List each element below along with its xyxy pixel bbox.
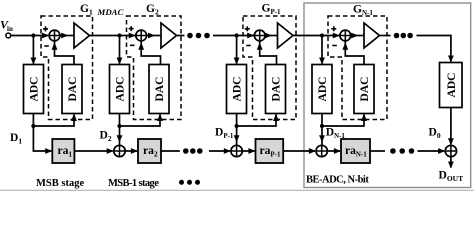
node junction DP-1	[235, 124, 239, 128]
svg-text:MSB stage: MSB stage	[36, 178, 84, 189]
DAC block stage 1	[62, 65, 82, 114]
summing node SB5	[445, 145, 456, 156]
svg-text:ADC: ADC	[232, 77, 244, 102]
ellipsis dots bottom caption row	[179, 180, 200, 185]
wire backend ADC down to summing node SB5	[448, 108, 454, 146]
wire A4 output stub	[380, 35, 391, 37]
ADC block stage 2	[110, 65, 130, 114]
wire ADC1 output down to node D1	[32, 114, 34, 127]
wire J3 down to ADC3	[234, 36, 240, 65]
wire DAC1 output feedback to S1 minus input	[52, 41, 74, 65]
wire ADC4 output down to node DN-1	[321, 114, 323, 127]
minus sign stage 1	[44, 45, 49, 47]
wire A1 output to junction J2 and S2	[90, 35, 136, 37]
wire SB3 to raP-1	[242, 148, 255, 154]
input terminal Vin	[0, 18, 13, 38]
svg-text:DAC: DAC	[154, 77, 166, 102]
wire D1 down to ra1	[33, 126, 52, 154]
wire DN-1 down to summing node SB4	[319, 126, 325, 145]
summing node S4	[340, 30, 351, 41]
summing node S3	[254, 30, 265, 41]
wire DAC3 output feedback to S3 minus input	[257, 41, 277, 65]
node junction J2	[117, 33, 121, 37]
dashed MDAC box stage 2	[127, 16, 182, 120]
plus sign stage 2	[129, 26, 134, 31]
dashed MDAC box stage 1	[41, 16, 93, 120]
svg-text:MSB-1 stage: MSB-1 stage	[108, 178, 159, 189]
wire S2 to amplifier A2	[147, 33, 161, 39]
label G1 MDAC	[80, 3, 124, 17]
wire J4 down to ADC4	[319, 36, 325, 65]
ADC block stage N-1	[312, 65, 332, 114]
block ra2	[138, 139, 161, 163]
block raP-1	[256, 139, 284, 163]
minus sign stage P-1	[246, 45, 251, 47]
svg-text:DAC: DAC	[359, 77, 371, 102]
wire DP-1 to DAC3 input	[237, 114, 279, 127]
node junction D2	[117, 124, 121, 128]
op-amp amplifier A4	[364, 23, 380, 48]
wire into final summing node SB5	[418, 148, 446, 154]
plus sign stage 1	[43, 26, 48, 31]
wire raP-1 to summing node SB4	[283, 148, 316, 154]
minus sign stage 2	[130, 44, 135, 46]
backend ADC block	[440, 63, 463, 108]
wire to backend ADC	[417, 36, 454, 63]
DAC block stage N-1	[354, 65, 374, 114]
wire DN-1 to DAC4 input	[322, 114, 367, 127]
DAC block stage P-1	[266, 65, 286, 114]
wire DAC2 output feedback to S2 minus input	[138, 41, 160, 65]
dashed MDAC box stage P-1	[243, 16, 296, 120]
wire D2 down to summing node SB2	[117, 126, 123, 145]
wire S3 to amplifier A3	[265, 33, 278, 39]
ellipsis dots top row 2	[394, 33, 413, 39]
ellipsis dots bottom row 2	[390, 148, 414, 154]
minus sign stage N-1	[332, 45, 337, 47]
svg-text:in: in	[7, 25, 13, 33]
wire DAC4 output feedback to S4 minus input	[342, 41, 364, 65]
arrowhead into S2	[129, 33, 136, 39]
summing node S1	[49, 30, 60, 41]
wire raN-1 output stub	[370, 150, 385, 152]
op-amp amplifier A3	[278, 23, 294, 48]
wire Vin to summing node S1	[11, 33, 49, 39]
summing node SB4	[316, 145, 327, 156]
figure bottom border line	[0, 189, 474, 191]
node junction D1	[31, 124, 35, 128]
wire SB4 to raN-1	[327, 148, 341, 154]
wire J1 down to ADC1	[31, 36, 37, 65]
plus sign stage N-1	[331, 26, 336, 31]
ellipsis dots top row 1	[187, 33, 210, 39]
svg-text:ADC: ADC	[29, 77, 41, 102]
wire ra2 output stub	[161, 150, 180, 152]
wire ADC3 output down to node DP-1	[236, 114, 238, 127]
ADC block stage P-1	[227, 65, 247, 114]
DAC block stage 2	[149, 65, 169, 114]
BE-ADC N-bit enclosure box	[304, 3, 471, 188]
svg-text:ADC: ADC	[446, 73, 458, 98]
node junction DN-1	[320, 124, 324, 128]
wire DP-1 down to summing node SB3	[234, 126, 240, 145]
wire ADC2 output down to node D2	[119, 114, 121, 127]
wire SB5 down to DOUT	[448, 157, 454, 169]
svg-text:BE-ADC, N-bit: BE-ADC, N-bit	[306, 175, 369, 186]
wire SB2 to ra2	[125, 148, 138, 154]
svg-text:DAC: DAC	[271, 77, 283, 102]
wire ra1 to summing node SB2	[74, 148, 113, 154]
block ra1	[52, 139, 74, 163]
arrowhead into S3	[247, 33, 254, 39]
block raN-1	[341, 139, 370, 163]
wire S1 to amplifier A1	[60, 33, 74, 39]
op-amp amplifier A1	[74, 23, 90, 48]
svg-text:ADC: ADC	[115, 77, 127, 102]
ADC block stage 1	[24, 65, 44, 114]
summing node SB3	[231, 145, 242, 156]
arrowhead into S4	[333, 33, 340, 39]
plus sign stage P-1	[245, 26, 250, 31]
node junction J3	[235, 33, 239, 37]
summing node S2	[136, 30, 147, 41]
node junction J1	[31, 33, 35, 37]
svg-text:MDAC: MDAC	[97, 7, 124, 17]
dashed MDAC box stage N-1	[328, 16, 387, 120]
ellipsis dots bottom row 1	[183, 148, 203, 154]
wire into stage P-1	[213, 35, 254, 37]
node junction J4	[320, 33, 324, 37]
op-amp amplifier A2	[161, 23, 177, 48]
wire A3 output to junction J4 and S4	[293, 35, 340, 37]
wire D2 to DAC2 input	[120, 114, 163, 127]
wire S4 to amplifier A4	[351, 33, 364, 39]
summing node SB2	[114, 145, 125, 156]
svg-text:ADC: ADC	[317, 77, 329, 102]
wire into summing node SB3	[209, 148, 231, 154]
svg-text:DAC: DAC	[67, 77, 79, 102]
wire A2 output stub	[177, 35, 185, 37]
wire D1 to DAC1 input	[33, 114, 77, 127]
wire J2 down to ADC2	[117, 36, 123, 65]
